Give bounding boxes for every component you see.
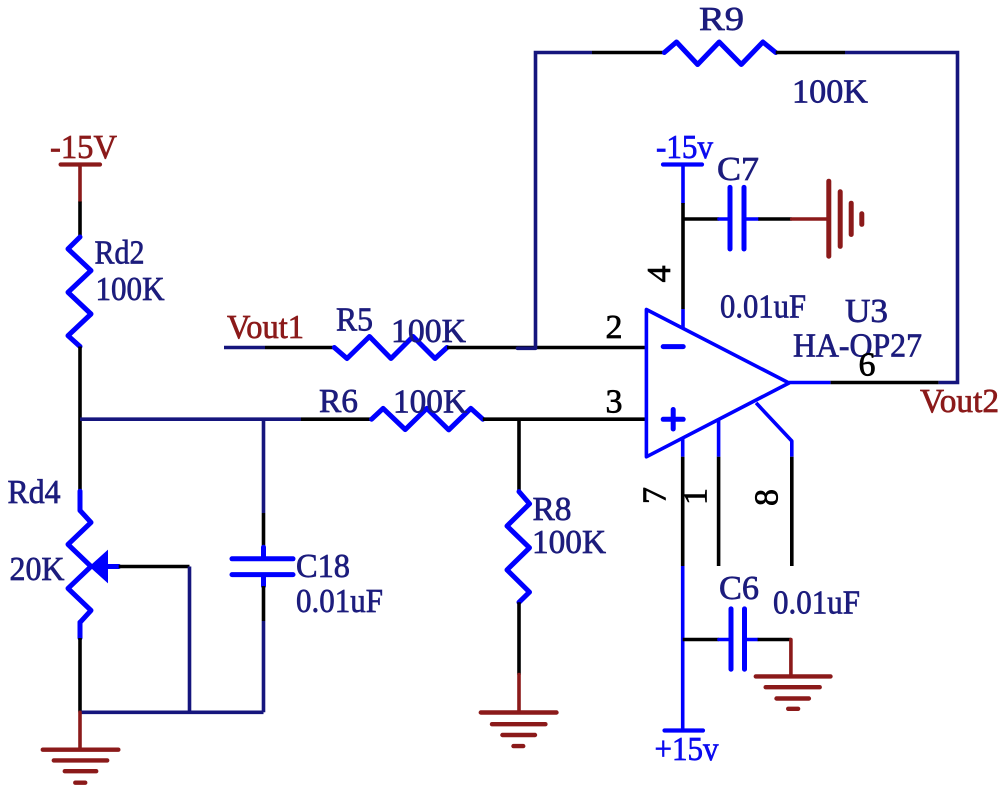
- svg-text:7: 7: [637, 487, 674, 504]
- ground (under R8): [481, 675, 557, 747]
- power port -15v (op-amp): [663, 165, 702, 204]
- capacitor C7: [719, 187, 758, 249]
- svg-text:0.01uF: 0.01uF: [720, 289, 806, 326]
- wire wiper vertical navy: [188, 567, 192, 713]
- svg-text:C7: C7: [717, 151, 759, 188]
- svg-text:8: 8: [749, 489, 786, 506]
- svg-text:C6: C6: [719, 570, 759, 607]
- resistor R5: [334, 337, 447, 359]
- resistor Rd2: [68, 237, 91, 347]
- pin 1 blue: [717, 419, 721, 456]
- wire node A horizontal navy (pin3 net): [80, 417, 301, 421]
- svg-text:100K: 100K: [532, 524, 606, 561]
- wire C7 left black: [683, 217, 719, 221]
- wire R6 right to pin3 black: [483, 417, 647, 421]
- svg-text:100K: 100K: [792, 74, 868, 111]
- wire bottom horizontal navy: [80, 710, 264, 714]
- ground (C6): [756, 640, 831, 709]
- wire R8 branch black upper: [517, 419, 521, 491]
- ground (C7, rotated): [792, 181, 862, 256]
- svg-text:R9: R9: [699, 1, 744, 38]
- wire C6 right black: [758, 638, 791, 642]
- svg-text:100K: 100K: [393, 384, 467, 421]
- resistor R9: [664, 42, 775, 65]
- wire pin4 black: [681, 203, 685, 309]
- op-amp plus input: [663, 410, 683, 430]
- svg-text:+15v: +15v: [655, 731, 719, 768]
- wire C6 left black: [683, 638, 719, 642]
- potentiometer Rd4: [68, 491, 119, 638]
- wire Vout1 navy: [224, 346, 265, 350]
- svg-text:-15V: -15V: [50, 129, 117, 166]
- pin 4 blue: [681, 309, 685, 329]
- wire feedback overlay at junction: [518, 346, 536, 350]
- svg-text:3: 3: [606, 384, 623, 421]
- svg-text:HA-OP27: HA-OP27: [793, 328, 922, 365]
- svg-text:U3: U3: [845, 293, 888, 330]
- power port +15v: [665, 728, 704, 732]
- wire pin1 black: [717, 457, 721, 566]
- wire R9 left black: [592, 51, 664, 55]
- resistor R8: [507, 492, 530, 603]
- op-amp minus input: [663, 344, 683, 349]
- wire C18 navy lower: [262, 621, 266, 712]
- wire R5 left black: [265, 346, 334, 350]
- svg-text:Vout2: Vout2: [920, 383, 999, 420]
- capacitor C6: [719, 609, 758, 669]
- svg-text:20K: 20K: [10, 551, 65, 588]
- svg-text:Rd2: Rd2: [95, 235, 145, 272]
- svg-text:2: 2: [606, 309, 623, 346]
- power port -15V: [61, 165, 100, 202]
- wire wiper black: [119, 565, 190, 569]
- svg-text:-15v: -15v: [656, 129, 713, 166]
- wire feedback left vertical navy: [536, 53, 593, 349]
- wire C18 black lower: [262, 586, 266, 621]
- svg-text:R6: R6: [319, 383, 358, 420]
- svg-text:R5: R5: [336, 302, 373, 339]
- wire pin8 black: [790, 457, 794, 566]
- op-amp U3: [646, 310, 789, 457]
- svg-text:6: 6: [859, 347, 876, 384]
- wire R8 black lower: [517, 602, 521, 674]
- svg-text:Rd4: Rd4: [8, 474, 61, 511]
- pin 7 blue: [681, 438, 685, 457]
- wire pin7 black: [681, 457, 685, 566]
- svg-text:0.01uF: 0.01uF: [296, 583, 383, 620]
- wire C18 black upper: [262, 513, 266, 557]
- svg-text:0.01uF: 0.01uF: [773, 585, 860, 622]
- wire C18 branch navy upper: [262, 419, 266, 513]
- svg-text:100K: 100K: [96, 271, 165, 308]
- wire output black: [831, 381, 939, 385]
- wire -15V rail black: [78, 202, 82, 238]
- pin 6 output blue stub: [789, 381, 831, 385]
- wire R5 right to pin2 black: [447, 346, 646, 350]
- capacitor C18: [232, 547, 293, 586]
- wire C7 right black: [758, 217, 791, 221]
- wire +15v blue: [681, 566, 685, 731]
- ground (left, under Rd4): [43, 712, 119, 782]
- svg-text:4: 4: [641, 266, 678, 283]
- svg-text:100K: 100K: [391, 313, 466, 350]
- wire feedback right vertical navy: [845, 53, 958, 383]
- svg-text:1: 1: [678, 488, 715, 505]
- wire left vertical black upper: [78, 347, 82, 492]
- svg-text:C18: C18: [296, 548, 350, 585]
- wire left vertical black lower: [78, 638, 82, 712]
- svg-text:Vout1: Vout1: [227, 309, 304, 346]
- wire R6 left black: [301, 417, 372, 421]
- svg-text:R8: R8: [533, 491, 572, 528]
- pin 8 blue: [756, 403, 792, 457]
- wire R9 right black: [776, 51, 845, 55]
- resistor R6: [372, 408, 483, 430]
